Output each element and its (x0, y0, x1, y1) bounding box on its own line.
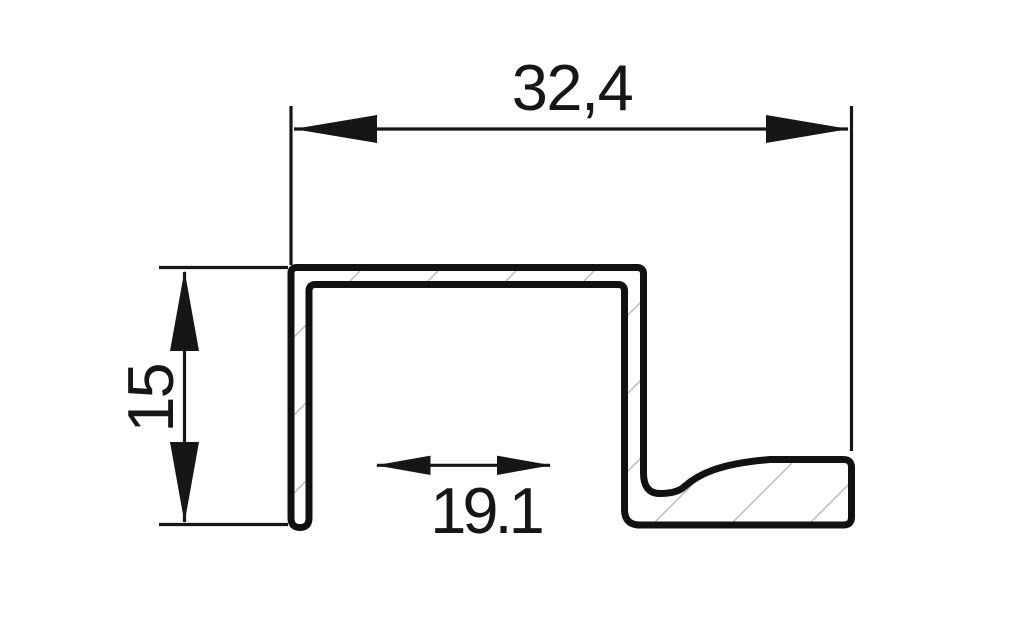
svg-text:19.1: 19.1 (430, 474, 541, 547)
svg-text:15: 15 (114, 364, 187, 432)
svg-text:32,4: 32,4 (512, 51, 633, 124)
